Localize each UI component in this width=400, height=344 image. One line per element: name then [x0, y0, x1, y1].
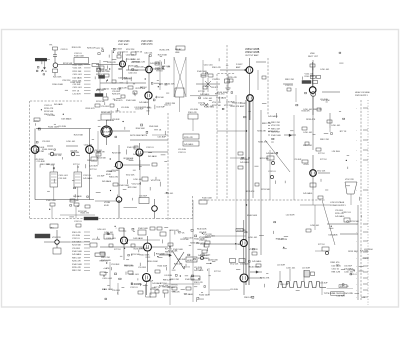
- svg-text:R213 56K: R213 56K: [136, 88, 146, 90]
- svg-text:P-DIST: P-DIST: [236, 64, 243, 66]
- svg-text:R140 100K: R140 100K: [199, 294, 210, 296]
- svg-text:C55 8UF: C55 8UF: [126, 59, 135, 61]
- svg-text:C410 .001: C410 .001: [84, 144, 92, 146]
- svg-text:R301 470: R301 470: [156, 254, 166, 256]
- svg-text:V123 V133: V123 V133: [118, 41, 130, 43]
- svg-text:R88 2.2M: R88 2.2M: [72, 270, 81, 272]
- svg-text:V152 22K: V152 22K: [126, 174, 135, 176]
- svg-text:R235 47K: R235 47K: [112, 93, 121, 95]
- svg-text:R88 2.2M: R88 2.2M: [101, 257, 110, 259]
- svg-text:C312 01: C312 01: [198, 102, 205, 104]
- svg-text:R140 100K: R140 100K: [271, 135, 282, 137]
- svg-text:C410 .001: C410 .001: [248, 237, 258, 239]
- svg-text:R77 1K: R77 1K: [198, 91, 205, 93]
- svg-text:R140 100K: R140 100K: [136, 128, 146, 130]
- svg-text:C410 .001: C410 .001: [203, 98, 213, 100]
- svg-text:+350V: +350V: [303, 164, 310, 166]
- svg-text:R301 470: R301 470: [72, 47, 82, 49]
- svg-text:R140 100K: R140 100K: [42, 149, 53, 151]
- svg-text:R140 100K: R140 100K: [113, 48, 123, 50]
- svg-text:D45 6AU6: D45 6AU6: [148, 155, 157, 158]
- svg-text:R301 470: R301 470: [330, 262, 340, 264]
- svg-text:C55 8UF: C55 8UF: [226, 102, 235, 104]
- svg-text:R235 47K: R235 47K: [257, 130, 266, 132]
- svg-text:R213 56K: R213 56K: [74, 134, 84, 136]
- svg-text:R140 100K: R140 100K: [126, 100, 137, 102]
- svg-text:V283A V283B: V283A V283B: [245, 48, 260, 51]
- svg-text:C55 8UF: C55 8UF: [211, 87, 219, 89]
- svg-text:R235 47K: R235 47K: [107, 62, 117, 64]
- svg-text:V152 22K: V152 22K: [212, 102, 221, 104]
- svg-text:C312 01: C312 01: [120, 51, 128, 53]
- svg-text:R140 100K: R140 100K: [73, 64, 84, 66]
- svg-text:R213 56K: R213 56K: [100, 70, 109, 72]
- svg-text:D45 6AU6: D45 6AU6: [240, 161, 250, 164]
- svg-text:R140 100K: R140 100K: [249, 266, 260, 268]
- svg-text:C312 01: C312 01: [268, 171, 276, 173]
- svg-text:R235 47K: R235 47K: [184, 137, 194, 139]
- svg-text:R235 47K: R235 47K: [72, 267, 82, 269]
- svg-text:R301 470: R301 470: [188, 112, 198, 114]
- svg-text:+GATE: +GATE: [103, 267, 110, 270]
- svg-text:R140 100K: R140 100K: [149, 126, 159, 128]
- svg-text:D45 6AU6: D45 6AU6: [152, 282, 161, 285]
- svg-text:D45 6AU6: D45 6AU6: [139, 101, 149, 104]
- svg-text:R77 1K: R77 1K: [73, 164, 80, 166]
- svg-text:R88 2.2M: R88 2.2M: [313, 109, 322, 111]
- svg-text:C410 .001: C410 .001: [286, 268, 296, 270]
- svg-text:R88 2.2M: R88 2.2M: [72, 257, 81, 259]
- svg-text:R301 470: R301 470: [162, 286, 170, 288]
- svg-text:R140 100K: R140 100K: [131, 284, 141, 286]
- svg-text:R77 1K: R77 1K: [318, 244, 325, 246]
- svg-text:C410 .001: C410 .001: [97, 229, 105, 231]
- svg-text:C410 .001: C410 .001: [66, 141, 76, 143]
- svg-text:R77 1K: R77 1K: [90, 169, 97, 171]
- svg-text:R213 56K: R213 56K: [360, 250, 369, 252]
- svg-text:R77 1K: R77 1K: [154, 130, 162, 132]
- svg-text:D45 6AU6: D45 6AU6: [303, 192, 313, 195]
- svg-text:L20 3UH: L20 3UH: [72, 152, 80, 154]
- svg-text:V293A V293B: V293A V293B: [245, 51, 260, 54]
- svg-text:R301 470: R301 470: [200, 255, 210, 257]
- svg-text:R88 2.2M: R88 2.2M: [262, 123, 271, 125]
- svg-text:C410 .001: C410 .001: [204, 107, 214, 109]
- svg-text:C55 8UF: C55 8UF: [138, 267, 147, 269]
- svg-text:R88 2.2M: R88 2.2M: [332, 272, 341, 274]
- svg-text:C312 01: C312 01: [332, 269, 340, 271]
- svg-text:C55 8UF: C55 8UF: [37, 161, 46, 163]
- svg-text:R235 47K: R235 47K: [134, 248, 144, 250]
- svg-text:V152 22K: V152 22K: [73, 68, 82, 70]
- svg-text:HORIZ: HORIZ: [187, 260, 194, 262]
- svg-text:C410 .001: C410 .001: [106, 238, 116, 240]
- svg-text:R213 56K: R213 56K: [261, 189, 271, 191]
- svg-text:R77 1K: R77 1K: [156, 71, 163, 73]
- svg-text:D45 6AU6: D45 6AU6: [335, 215, 345, 218]
- svg-text:R213 56K: R213 56K: [96, 101, 106, 103]
- svg-text:R140 100K: R140 100K: [202, 198, 213, 200]
- svg-text:R213 56K: R213 56K: [44, 111, 54, 113]
- svg-text:C312 01: C312 01: [44, 105, 53, 107]
- svg-text:R213 56K: R213 56K: [268, 131, 278, 133]
- svg-text:L20 3UH: L20 3UH: [332, 151, 340, 153]
- svg-text:C410 .001: C410 .001: [144, 52, 152, 54]
- svg-text:R235 47K: R235 47K: [258, 142, 268, 144]
- svg-text:D45 6AU6: D45 6AU6: [240, 263, 249, 266]
- svg-text:R235 47K: R235 47K: [87, 48, 97, 50]
- svg-text:R140 100K: R140 100K: [305, 76, 316, 78]
- svg-text:D45 6AU6: D45 6AU6: [119, 76, 128, 79]
- svg-text:D45 6AU6: D45 6AU6: [73, 195, 82, 198]
- svg-text:C312 01: C312 01: [130, 287, 138, 289]
- svg-text:R301 470: R301 470: [114, 100, 123, 102]
- svg-text:L20 3UH: L20 3UH: [178, 149, 186, 151]
- svg-text:L20 3UH: L20 3UH: [277, 265, 285, 267]
- svg-text:V152 22K: V152 22K: [151, 180, 161, 182]
- svg-text:R301 470: R301 470: [196, 243, 204, 245]
- svg-text:C312 01: C312 01: [178, 152, 186, 154]
- svg-text:V143 V163: V143 V163: [141, 41, 153, 43]
- svg-text:D45 6AU6: D45 6AU6: [54, 103, 63, 106]
- svg-text:D45 6AU6: D45 6AU6: [184, 143, 194, 146]
- svg-text:C410 .001: C410 .001: [204, 65, 213, 67]
- svg-text:C55 8UF: C55 8UF: [73, 84, 82, 86]
- svg-text:RECT CRT: RECT CRT: [308, 56, 319, 58]
- svg-text:D45 6AU6: D45 6AU6: [268, 115, 278, 118]
- svg-text:C410 .001: C410 .001: [59, 175, 69, 177]
- svg-text:L20 3UH: L20 3UH: [302, 268, 310, 270]
- svg-text:C55 8UF: C55 8UF: [59, 178, 68, 180]
- svg-text:R213 56K: R213 56K: [350, 221, 360, 223]
- svg-text:R301 470: R301 470: [276, 239, 284, 241]
- svg-text:V152 22K: V152 22K: [132, 184, 142, 186]
- svg-text:AMP: AMP: [236, 66, 241, 69]
- svg-text:C55 8UF: C55 8UF: [145, 280, 154, 282]
- svg-text:AMP: AMP: [240, 105, 245, 108]
- svg-text:C55 8UF: C55 8UF: [294, 159, 302, 161]
- svg-text:R77 1K: R77 1K: [340, 131, 347, 133]
- svg-text:C312 01: C312 01: [72, 238, 80, 240]
- svg-text:R88 2.2M: R88 2.2M: [320, 139, 329, 141]
- svg-text:NOTE SEE PARTS: NOTE SEE PARTS: [130, 134, 148, 137]
- svg-text:C410 .001: C410 .001: [344, 272, 354, 274]
- svg-text:C55 8UF: C55 8UF: [344, 266, 353, 268]
- svg-text:R140 100K: R140 100K: [148, 261, 159, 263]
- svg-text:L20 3UH: L20 3UH: [106, 120, 115, 122]
- svg-text:R213 56K: R213 56K: [348, 251, 358, 253]
- svg-text:C312 01: C312 01: [362, 258, 369, 260]
- svg-text:L20 3UH: L20 3UH: [102, 132, 110, 134]
- svg-text:R88 2.2M: R88 2.2M: [163, 279, 172, 281]
- svg-text:D45 6AU6: D45 6AU6: [72, 253, 82, 256]
- svg-text:R235 47K: R235 47K: [174, 263, 183, 265]
- svg-text:R235 47K: R235 47K: [301, 110, 310, 112]
- svg-text:R140 100K: R140 100K: [208, 260, 218, 262]
- svg-text:R235 47K: R235 47K: [260, 278, 270, 280]
- svg-text:D45 6AU6: D45 6AU6: [83, 177, 93, 180]
- svg-text:R235 47K: R235 47K: [72, 261, 82, 263]
- svg-text:C312 01: C312 01: [182, 267, 190, 269]
- svg-text:R301 470: R301 470: [90, 151, 100, 153]
- svg-text:L20 3UH: L20 3UH: [164, 275, 172, 277]
- svg-text:C410 .001: C410 .001: [165, 193, 173, 195]
- svg-text:D45 6AU6: D45 6AU6: [150, 62, 160, 65]
- svg-text:C55 8UF: C55 8UF: [139, 196, 148, 198]
- svg-text:D45 6AU6: D45 6AU6: [61, 118, 72, 121]
- svg-text:C55 8UF: C55 8UF: [111, 264, 120, 266]
- svg-text:C55 8UF: C55 8UF: [347, 270, 355, 272]
- svg-text:L20 3UH: L20 3UH: [121, 107, 129, 109]
- svg-text:R77 1K: R77 1K: [97, 48, 105, 50]
- svg-text:C55 8UF: C55 8UF: [72, 248, 81, 250]
- svg-text:D45 6AU6: D45 6AU6: [73, 76, 83, 79]
- svg-text:R235 47K: R235 47K: [160, 50, 170, 52]
- svg-text:C312 01: C312 01: [60, 49, 67, 51]
- svg-text:LINE: LINE: [175, 52, 180, 54]
- svg-text:R213 56K: R213 56K: [72, 245, 82, 247]
- svg-text:V152 22K: V152 22K: [317, 171, 326, 173]
- svg-text:V152 22K: V152 22K: [52, 237, 61, 239]
- svg-text:C410 .001: C410 .001: [133, 179, 143, 181]
- svg-text:R301 470: R301 470: [72, 232, 82, 234]
- svg-text:R213 56K: R213 56K: [97, 157, 106, 159]
- svg-text:R88 2.2M: R88 2.2M: [271, 122, 280, 124]
- svg-text:R77 1K: R77 1K: [171, 285, 178, 287]
- svg-text:R235 47K: R235 47K: [246, 191, 255, 193]
- svg-text:C410 .001: C410 .001: [331, 125, 341, 127]
- svg-text:R235 47K: R235 47K: [306, 119, 316, 121]
- svg-text:C410 .001: C410 .001: [73, 87, 83, 89]
- svg-text:R140 100K: R140 100K: [135, 67, 145, 69]
- svg-text:R140 100K: R140 100K: [185, 279, 196, 281]
- svg-text:C410 .001: C410 .001: [320, 69, 330, 71]
- svg-text:R213 56K: R213 56K: [180, 239, 189, 241]
- svg-text:R235 47K: R235 47K: [44, 108, 54, 110]
- svg-text:PWR SUPPLY: PWR SUPPLY: [355, 95, 369, 97]
- svg-text:R88 2.2M: R88 2.2M: [165, 252, 174, 254]
- svg-text:D45 6AU6: D45 6AU6: [133, 237, 143, 240]
- svg-text:L20 3UH: L20 3UH: [72, 235, 80, 237]
- svg-text:C410 .001: C410 .001: [129, 274, 140, 276]
- svg-text:R301 470: R301 470: [109, 177, 119, 179]
- svg-text:C312 01: C312 01: [285, 85, 293, 87]
- svg-text:C55 8UF: C55 8UF: [112, 290, 121, 292]
- svg-text:OUTPUT AMP: OUTPUT AMP: [245, 54, 259, 57]
- svg-text:L20 3UH: L20 3UH: [73, 94, 81, 96]
- svg-text:R77 1K: R77 1K: [320, 159, 327, 161]
- svg-text:V152 22K: V152 22K: [172, 291, 181, 293]
- svg-text:D45 6AU6: D45 6AU6: [216, 96, 226, 99]
- svg-text:R140 100K: R140 100K: [72, 264, 83, 266]
- svg-text:R301 470: R301 470: [194, 282, 204, 284]
- svg-text:L20 3UH: L20 3UH: [70, 150, 78, 152]
- svg-text:C410 .001: C410 .001: [104, 232, 114, 234]
- svg-text:LOW VOLTAGE: LOW VOLTAGE: [330, 201, 345, 204]
- svg-text:L20 3UH: L20 3UH: [337, 295, 346, 297]
- svg-text:R88 2.2M: R88 2.2M: [285, 79, 294, 81]
- svg-text:C410 .001: C410 .001: [102, 278, 113, 280]
- svg-text:R140 100K: R140 100K: [194, 239, 205, 241]
- svg-text:C55 8UF: C55 8UF: [178, 259, 187, 261]
- svg-text:C410 .001: C410 .001: [303, 132, 313, 134]
- svg-text:R140 100K: R140 100K: [48, 127, 59, 129]
- svg-text:R88 2.2M: R88 2.2M: [34, 151, 43, 153]
- svg-text:R213 56K: R213 56K: [63, 63, 73, 65]
- svg-text:TP1: TP1: [49, 45, 52, 47]
- svg-text:C410 .001: C410 .001: [205, 235, 215, 237]
- svg-text:D45 6AU6: D45 6AU6: [328, 234, 337, 237]
- svg-text:HIGH VOLTAGE: HIGH VOLTAGE: [355, 91, 370, 94]
- svg-text:L20 3UH: L20 3UH: [230, 289, 238, 291]
- svg-text:C55 8UF: C55 8UF: [157, 137, 166, 139]
- svg-text:R77 1K: R77 1K: [135, 52, 142, 54]
- svg-text:C410 .001: C410 .001: [126, 54, 135, 56]
- svg-text:R77 1K: R77 1K: [318, 153, 325, 155]
- svg-text:R301 470: R301 470: [100, 260, 108, 262]
- svg-text:R88 2.2M: R88 2.2M: [271, 128, 280, 130]
- svg-text:L20 3UH: L20 3UH: [89, 165, 98, 167]
- svg-text:D45 6AU6: D45 6AU6: [200, 93, 210, 96]
- svg-text:R140 100K: R140 100K: [72, 251, 83, 253]
- svg-text:R235 47K: R235 47K: [81, 212, 90, 214]
- svg-text:L20 3UH: L20 3UH: [48, 115, 56, 117]
- svg-text:C55 8UF: C55 8UF: [101, 106, 110, 108]
- svg-text:R140 100K: R140 100K: [247, 215, 258, 217]
- svg-text:L20 3UH: L20 3UH: [58, 126, 66, 128]
- svg-text:R213 56K: R213 56K: [73, 71, 83, 73]
- svg-text:V193B: V193B: [104, 202, 111, 204]
- svg-text:C55 8UF: C55 8UF: [42, 141, 51, 143]
- svg-text:VERT AMP: VERT AMP: [118, 43, 129, 46]
- svg-text:C410 .001: C410 .001: [128, 72, 137, 74]
- svg-text:C55 8UF: C55 8UF: [111, 170, 119, 172]
- svg-text:V152 22K: V152 22K: [230, 264, 239, 266]
- svg-text:L20 3UH: L20 3UH: [190, 109, 198, 111]
- svg-text:R213 56K: R213 56K: [260, 158, 270, 160]
- svg-text:R77 1K: R77 1K: [196, 268, 203, 270]
- svg-text:V153 V173: V153 V173: [141, 44, 153, 46]
- svg-text:+225V: +225V: [33, 121, 40, 123]
- svg-text:C312 01: C312 01: [126, 159, 133, 161]
- svg-text:V152 22K: V152 22K: [165, 83, 175, 85]
- svg-text:C312 01: C312 01: [212, 79, 220, 81]
- svg-text:R77 1K: R77 1K: [41, 71, 48, 73]
- svg-text:R235 47K: R235 47K: [228, 77, 238, 79]
- svg-text:R213 56K: R213 56K: [158, 55, 168, 57]
- svg-text:R301 470: R301 470: [212, 67, 222, 69]
- svg-text:R140 100K: R140 100K: [102, 289, 113, 291]
- svg-text:V152 22K: V152 22K: [345, 179, 354, 181]
- svg-text:R301 470: R301 470: [86, 108, 96, 110]
- svg-text:R77 1K: R77 1K: [214, 271, 221, 273]
- svg-text:R140 100K: R140 100K: [70, 82, 81, 84]
- svg-text:C410 .001: C410 .001: [101, 112, 111, 114]
- svg-text:R88 2.2M: R88 2.2M: [47, 164, 56, 166]
- svg-text:C410 .001: C410 .001: [73, 74, 83, 76]
- svg-text:R88 2.2M: R88 2.2M: [125, 265, 134, 267]
- svg-text:R140 100K: R140 100K: [138, 228, 149, 230]
- svg-text:R77 1K: R77 1K: [73, 90, 80, 92]
- svg-text:C55 8UF: C55 8UF: [156, 107, 165, 109]
- svg-text:R140 100K: R140 100K: [127, 147, 138, 149]
- svg-text:C312 01: C312 01: [83, 175, 91, 177]
- svg-text:C312 01: C312 01: [342, 212, 351, 214]
- svg-text:C410 .001: C410 .001: [280, 284, 288, 286]
- svg-text:C312 01: C312 01: [102, 89, 109, 91]
- svg-text:D45 6AU6: D45 6AU6: [266, 152, 276, 155]
- svg-text:C55 8UF: C55 8UF: [97, 175, 105, 177]
- svg-text:C55 8UF: C55 8UF: [199, 232, 207, 234]
- svg-text:R235 47K: R235 47K: [231, 106, 240, 108]
- svg-text:R140 100K: R140 100K: [140, 254, 150, 256]
- svg-text:D45 6AU6: D45 6AU6: [102, 180, 112, 183]
- svg-text:C312 01: C312 01: [146, 147, 154, 149]
- svg-text:L20 3UH: L20 3UH: [286, 214, 295, 216]
- svg-text:R77 1K: R77 1K: [165, 248, 173, 250]
- svg-text:R213 56K: R213 56K: [53, 77, 62, 79]
- svg-text:R88 2.2M: R88 2.2M: [170, 279, 179, 281]
- svg-text:R77 1K: R77 1K: [178, 233, 185, 235]
- svg-text:V152 22K: V152 22K: [271, 125, 280, 127]
- svg-text:R213 56K: R213 56K: [112, 153, 122, 155]
- svg-text:R77 1K: R77 1K: [114, 249, 121, 251]
- svg-text:R213 56K: R213 56K: [128, 187, 138, 189]
- svg-text:C312 01: C312 01: [74, 221, 82, 223]
- svg-text:R235 47K: R235 47K: [142, 107, 151, 109]
- svg-text:C410 .001: C410 .001: [310, 225, 320, 227]
- svg-text:R140 100K: R140 100K: [46, 200, 57, 202]
- svg-text:R140 100K: R140 100K: [52, 84, 63, 86]
- svg-text:POWER SUPPLY: POWER SUPPLY: [330, 205, 347, 207]
- svg-text:L20 3UH: L20 3UH: [321, 100, 329, 102]
- svg-text:V152 22K: V152 22K: [52, 155, 62, 157]
- svg-text:R88 2.2M: R88 2.2M: [303, 145, 312, 147]
- svg-text:R88 2.2M: R88 2.2M: [137, 61, 146, 63]
- svg-text:R88 2.2M: R88 2.2M: [166, 103, 175, 105]
- svg-text:L20 3UH: L20 3UH: [92, 239, 100, 241]
- svg-text:D45 6AU6: D45 6AU6: [252, 260, 262, 263]
- svg-text:C410 .001: C410 .001: [87, 160, 96, 162]
- svg-text:R140 100K: R140 100K: [197, 229, 207, 231]
- svg-text:C55 8UF: C55 8UF: [320, 283, 328, 285]
- svg-text:R301 470: R301 470: [215, 94, 225, 96]
